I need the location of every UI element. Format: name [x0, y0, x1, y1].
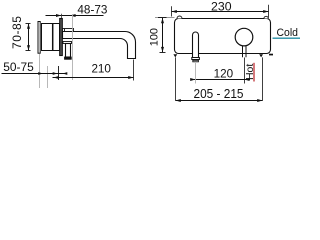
- gray extension line (min pos): [47, 66, 49, 88]
- wall flange bar: [38, 22, 40, 54]
- svg-text:70-85: 70-85: [10, 16, 24, 49]
- in-wall body box: [42, 24, 60, 51]
- dark extension line (plate face): [58, 66, 60, 80]
- svg-text:205 - 215: 205 - 215: [194, 87, 244, 101]
- top dome left: [177, 16, 182, 19]
- gray extension line (wall face): [39, 54, 41, 88]
- dim line 120: [191, 79, 251, 81]
- dim line 210: [53, 77, 134, 79]
- dim line 230: [172, 11, 269, 13]
- gray extension line (max handle pos): [72, 14, 74, 80]
- Hot underline (red): [253, 63, 254, 82]
- extension handle center: [244, 58, 246, 84]
- escutcheon plate (side): [60, 19, 63, 56]
- dim line 50-75: [2, 73, 67, 75]
- extension line hot inlet: [262, 57, 264, 100]
- gray wall line: [155, 17, 175, 19]
- collar on spout base: [63, 29, 74, 32]
- gray extension spout center: [195, 63, 197, 84]
- bottom right tab: [269, 54, 273, 56]
- plate (front): [175, 19, 271, 54]
- handle lever tube: [66, 44, 71, 58]
- svg-text:120: 120: [214, 66, 234, 80]
- svg-text:100: 100: [149, 28, 161, 46]
- handle circle (front): [235, 28, 253, 46]
- svg-text:210: 210: [91, 62, 111, 76]
- extension line left inlet: [175, 57, 177, 100]
- spout (side): [63, 32, 136, 59]
- dim line 70-85: [28, 24, 30, 51]
- svg-text:48-73: 48-73: [77, 3, 107, 17]
- Cold underline: [273, 38, 301, 39]
- extension lines 230: [171, 6, 173, 16]
- extension line spout outlet: [133, 60, 135, 81]
- handle stem: [242, 46, 244, 58]
- handle (side) flange: [63, 42, 72, 44]
- dim line 48-73: [46, 15, 104, 17]
- handle end cap: [65, 57, 72, 59]
- hot inlet triangle: [259, 54, 263, 57]
- spout (front) rounded slot: [193, 32, 199, 58]
- svg-text:Cold: Cold: [277, 27, 299, 39]
- spout end cap: [192, 58, 200, 60]
- dim line 205-215: [176, 100, 263, 102]
- dim line 100: [162, 18, 164, 52]
- top dome right: [264, 16, 268, 18]
- body divider: [52, 24, 54, 51]
- cold/left inlet triangle: [173, 54, 177, 57]
- svg-text:50-75: 50-75: [3, 60, 34, 74]
